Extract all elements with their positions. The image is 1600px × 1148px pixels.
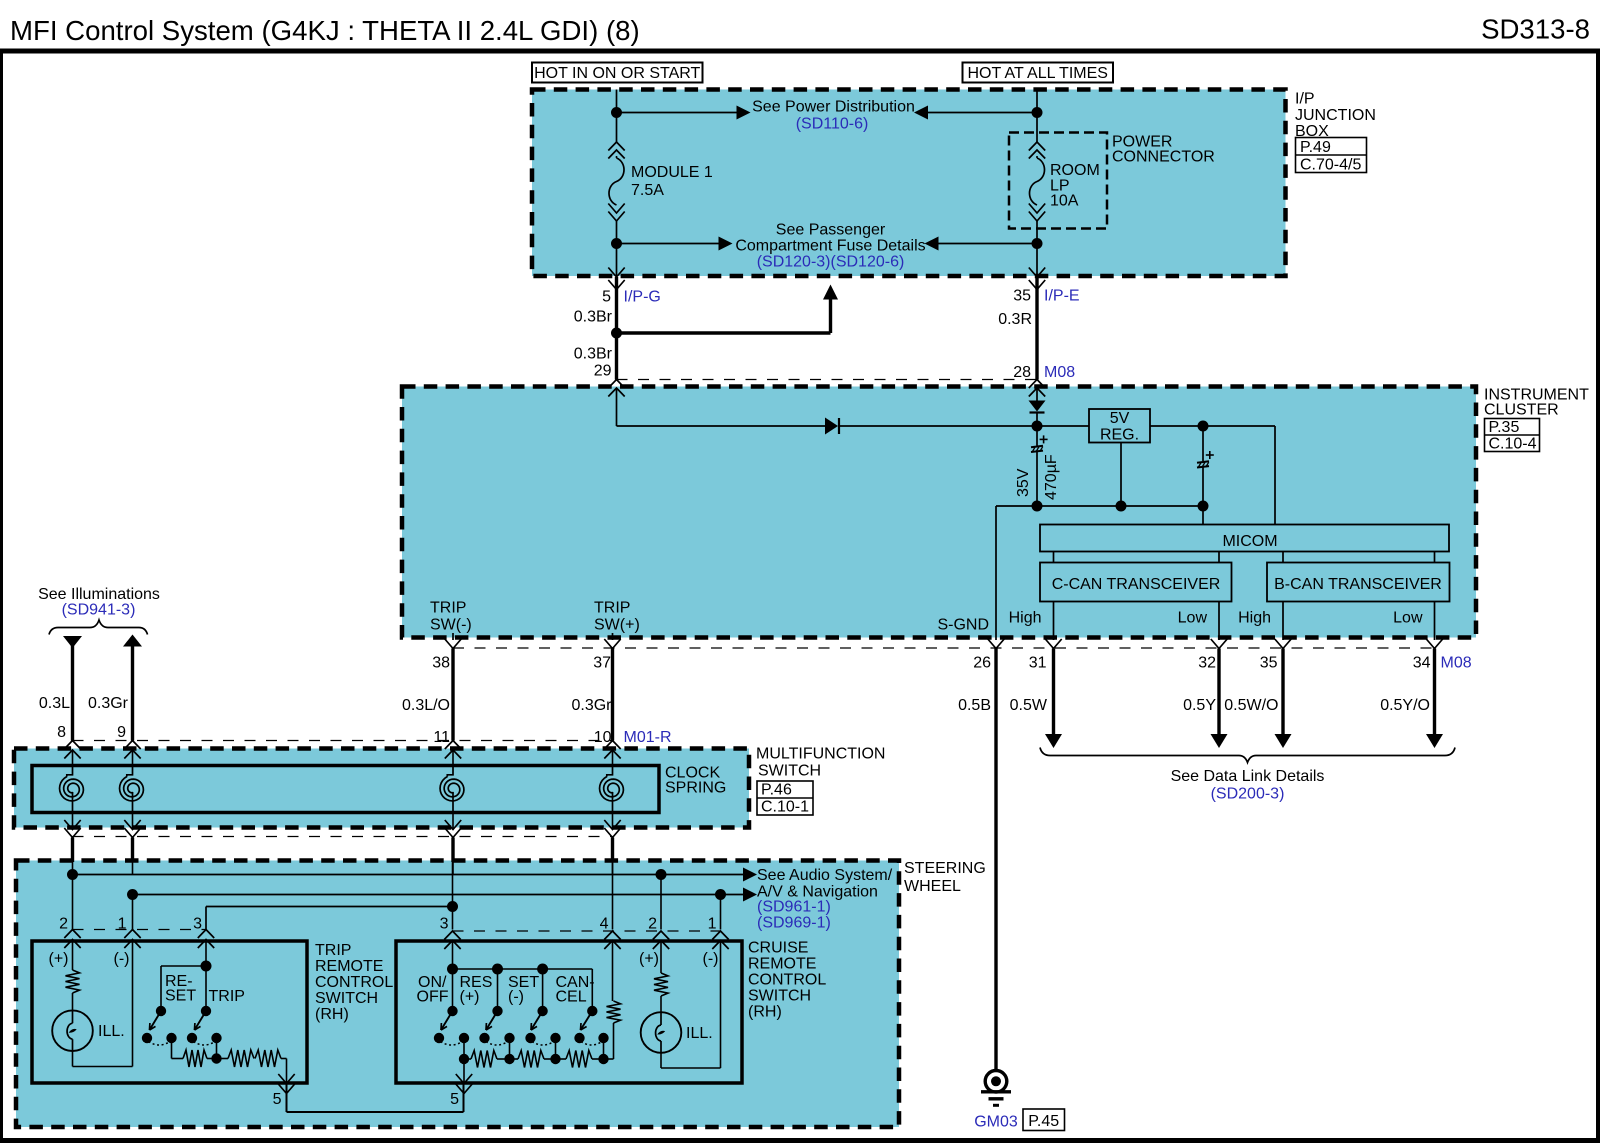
lamp cruise ILL (660, 996, 662, 1012)
node cruise rail set (537, 964, 548, 975)
svg-text:0.3R: 0.3R (998, 311, 1032, 328)
svg-text:(RH): (RH) (748, 1004, 782, 1021)
contact dots trip switches (142, 1033, 152, 1043)
resistor cruise R2 (510, 1058, 519, 1060)
wire c-can high to pin 31 (1053, 602, 1055, 641)
connector pin8 exit multifunction (64, 820, 80, 830)
svg-text:0.3Br: 0.3Br (574, 309, 613, 326)
connector pin8 entry multifunction (64, 741, 80, 750)
svg-text:SD313-8: SD313-8 (1481, 14, 1590, 45)
wire steering drop pin2 (72, 875, 74, 930)
svg-text:REMOTE: REMOTE (748, 956, 816, 973)
node cruise rail res (492, 964, 503, 975)
svg-text:3: 3 (440, 916, 449, 933)
node audio line2 cruise pin1 (715, 889, 726, 900)
wire pin8 through clock spring (72, 750, 74, 766)
ganged link set (532, 1042, 554, 1046)
svg-text:0.3L/O: 0.3L/O (402, 697, 450, 714)
wire 0.5Y pin32 (1217, 649, 1220, 736)
svg-text:28: 28 (1013, 364, 1031, 381)
wire b-can low to pin 34 (1434, 602, 1436, 641)
node audio line1 cruise pin2 (656, 869, 667, 880)
node rail cap2 (1198, 501, 1209, 512)
wire pin9 to steering wheel (131, 838, 134, 863)
wire trip pin3 link (206, 906, 453, 908)
svg-text:CRUISE: CRUISE (748, 940, 808, 957)
svg-text:(SD941-3): (SD941-3) (62, 602, 136, 619)
ref box P.46 C.10-1 (757, 781, 813, 815)
wire 0.3L/O pin38 (451, 649, 454, 741)
fuse MODULE 1 7.5A (608, 142, 624, 151)
ground GM03 (985, 1071, 1007, 1093)
resistor cruise R1 (464, 1058, 471, 1060)
wire reset contact stub (171, 1038, 173, 1059)
node ignition-distribution junction (611, 107, 622, 118)
node audio line1 start (67, 869, 78, 880)
svg-text:C.10-4: C.10-4 (1489, 436, 1537, 453)
wire steering drop cruise pin2 (660, 875, 662, 930)
svg-text:P.49: P.49 (1300, 139, 1331, 156)
svg-text:(SD110-6): (SD110-6) (796, 116, 869, 133)
svg-text:M08: M08 (1044, 364, 1075, 381)
node trip-cruise pin3 junction (447, 901, 458, 912)
connector pin 35 exit (1275, 639, 1291, 649)
svg-text:29: 29 (594, 363, 612, 380)
label HOT IN ON OR START (532, 63, 703, 83)
resistor trip R1 (172, 1058, 184, 1060)
switch RESET (156, 1006, 166, 1016)
svg-text:REG.: REG. (1100, 427, 1139, 444)
wire ignition feed (616, 90, 618, 143)
svg-text:MULTIFUNCTION: MULTIFUNCTION (756, 746, 885, 763)
svg-text:C.10-1: C.10-1 (761, 799, 809, 816)
switch CANCEL (587, 1006, 597, 1016)
svg-text:STEERING: STEERING (904, 860, 986, 877)
wire audio line 1 (73, 874, 744, 876)
connector cruise switch entry x612.5 (604, 931, 620, 940)
node main rail left (1032, 421, 1043, 432)
clock spring coil pin11 (440, 776, 464, 800)
svg-text:OFF: OFF (417, 989, 449, 1006)
svg-text:(SD200-3): (SD200-3) (1211, 786, 1285, 803)
connector line cruise switch (453, 930, 721, 932)
connector pin 34 exit (1426, 639, 1442, 649)
svg-text:35: 35 (1260, 655, 1278, 672)
wire 0.5B s-gnd (994, 649, 997, 1071)
svg-text:0.3Br: 0.3Br (574, 346, 613, 363)
wire branch arrow to fuse details (617, 331, 831, 334)
svg-text:(+): (+) (639, 951, 659, 968)
svg-text:(RH): (RH) (315, 1006, 349, 1023)
switch SET (537, 1006, 547, 1016)
svg-text:JUNCTION: JUNCTION (1295, 107, 1376, 124)
connector cruise switch entry x452.5 (444, 931, 460, 940)
svg-text:0.5Y: 0.5Y (1183, 697, 1216, 714)
wire 0.3R (1035, 277, 1038, 380)
label HOT AT ALL TIMES (963, 63, 1114, 83)
svg-text:HOT AT ALL TIMES: HOT AT ALL TIMES (967, 65, 1108, 82)
connector pin10 exit multifunction (604, 820, 620, 830)
wire 0.3Gr pin37 (611, 649, 614, 741)
svg-text:TRIP: TRIP (594, 600, 630, 617)
svg-text:TRIP: TRIP (430, 600, 466, 617)
svg-text:MFI Control System (G4KJ : THE: MFI Control System (G4KJ : THETA II 2.4L… (10, 15, 640, 46)
wire trip-cruise pin5 link (287, 1111, 464, 1113)
svg-text:C.70-4/5: C.70-4/5 (1300, 157, 1361, 174)
wire 0.3Gr illumination (123, 635, 142, 647)
connector pin 29 entry (608, 380, 624, 389)
svg-text:2: 2 (648, 916, 657, 933)
connector pin 31 exit (1045, 639, 1061, 649)
svg-text:High: High (1238, 610, 1271, 627)
svg-text:High: High (1009, 610, 1042, 627)
wire steering drop cruise pin3 (452, 862, 454, 930)
wire cruise lamp return (660, 1053, 662, 1068)
ic C-CAN TRANSCEIVER (1040, 563, 1232, 602)
wire steering drop cruise pin4 (612, 862, 614, 930)
wire pin11 through clock spring (452, 750, 454, 766)
node 0.3Br branch junction (611, 328, 622, 339)
svg-text:4: 4 (600, 916, 609, 933)
svg-text:(SD969-1): (SD969-1) (757, 915, 831, 932)
svg-text:Compartment Fuse Details: Compartment Fuse Details (735, 238, 925, 255)
svg-text:26: 26 (973, 655, 991, 672)
switch TRIP (201, 1006, 211, 1016)
svg-text:SET: SET (165, 988, 196, 1005)
node rail reg (1116, 501, 1127, 512)
diode D2 (1036, 388, 1038, 401)
svg-text:8: 8 (57, 724, 66, 741)
svg-text:GM03: GM03 (974, 1114, 1018, 1131)
svg-text:1: 1 (118, 916, 127, 933)
svg-text:0.5B: 0.5B (958, 697, 991, 714)
svg-text:P.46: P.46 (761, 782, 792, 799)
connector trip switch entry x206 (198, 930, 214, 939)
svg-text:I/P-G: I/P-G (624, 289, 661, 306)
wire trip contact stub (216, 1038, 218, 1059)
node cap2 top (1198, 421, 1209, 432)
wire pin11 to steering wheel (451, 838, 454, 863)
svg-text:MODULE 1: MODULE 1 (631, 164, 713, 181)
connector pin 28 entry (1029, 380, 1045, 389)
svg-text:See Audio System/: See Audio System/ (757, 867, 893, 884)
wire 0.3L illumination (63, 636, 82, 648)
connector pin11 entry multifunction (445, 741, 461, 750)
wire 5V reg output (1150, 425, 1275, 427)
node battery-distribution junction (1032, 107, 1043, 118)
svg-text:9: 9 (117, 724, 126, 741)
svg-text:SW(+): SW(+) (594, 617, 640, 634)
resistor cruise R4 vertical (607, 1001, 621, 1023)
wire 0.3Br lower (615, 333, 618, 380)
I/P junction box block (532, 90, 1286, 277)
wire cruise pin4 internal (612, 941, 614, 1002)
regulator 5V REG (1089, 409, 1150, 443)
clock spring box (32, 766, 659, 813)
svg-text:31: 31 (1029, 655, 1047, 672)
svg-text:(-): (-) (703, 951, 719, 968)
svg-text:SPRING: SPRING (665, 780, 726, 797)
svg-text:I/P: I/P (1295, 91, 1315, 108)
wire trip sw+ internal (612, 633, 614, 640)
svg-text:P.45: P.45 (1028, 1113, 1059, 1130)
diode D1 (825, 418, 838, 435)
svg-text:(SD961-1): (SD961-1) (757, 899, 831, 916)
trip remote control switch box (32, 941, 307, 1083)
connector cruise switch entry x720.5 (712, 931, 728, 940)
resistor trip illumination (72, 940, 74, 971)
wire battery feed (1036, 90, 1038, 143)
ref box P.35 C.10-4 (1485, 419, 1540, 452)
multifunction switch block (14, 749, 749, 828)
wire trip lamp return (72, 1051, 74, 1067)
node cruise rail A (459, 1054, 469, 1064)
ganged link on/off (441, 1042, 463, 1046)
switch RES (492, 1006, 502, 1016)
switch ON/OFF (447, 1006, 457, 1016)
connector pin10 entry multifunction (604, 741, 620, 750)
resistor trip R2 (217, 1058, 229, 1060)
wire steering drop pin1 (132, 895, 134, 930)
ref box P.45 (1023, 1109, 1065, 1131)
clock spring coil pin10 (600, 776, 624, 800)
wire reset branch (161, 965, 206, 967)
connector line trip switch (73, 929, 207, 931)
wire cruise top rail (453, 968, 593, 970)
svg-text:470µF: 470µF (1043, 454, 1060, 500)
page frame (0, 49, 1600, 54)
wire cruise switch stubs (452, 969, 454, 1011)
connector pin 32 exit (1211, 639, 1227, 649)
svg-text:CEL: CEL (556, 989, 587, 1006)
fuse ROOM LP 10A (1029, 142, 1045, 151)
connector line multifunction bottom (73, 836, 613, 838)
svg-text:0.5W: 0.5W (1010, 697, 1048, 714)
instrument cluster block (402, 387, 1476, 638)
wire cruise contact stubs (463, 1038, 465, 1059)
node passenger-fuse junction left (611, 238, 622, 249)
connector pin 5 I/P-G (608, 268, 624, 278)
node audio line2 start (127, 889, 138, 900)
connector trip switch entry x132.5 (124, 930, 140, 939)
wire 5V reg input (1037, 425, 1089, 427)
wire 0.3Br upper (615, 277, 618, 333)
node trip resistor junction (211, 1053, 221, 1063)
node cruise rail pin3 (447, 964, 458, 975)
svg-text:10A: 10A (1050, 193, 1079, 210)
node cruise rail B (504, 1054, 514, 1064)
capacitor C2 (1202, 426, 1204, 461)
arrow to passenger fuse details left (617, 243, 720, 245)
node cruise rail D (598, 1054, 608, 1064)
connector line M08 top (617, 379, 1038, 381)
svg-text:SWITCH: SWITCH (748, 988, 811, 1005)
svg-text:(-): (-) (508, 989, 524, 1006)
resistor cruise illumination (660, 941, 662, 974)
svg-text:I/P-E: I/P-E (1044, 288, 1080, 305)
svg-text:(+): (+) (49, 951, 69, 968)
svg-text:5: 5 (273, 1091, 282, 1108)
wire cap2 to micom (1202, 506, 1204, 525)
svg-text:0.5Y/O: 0.5Y/O (1380, 697, 1430, 714)
wire trip pin3 internal (205, 940, 207, 967)
power connector box (1009, 133, 1107, 229)
wire c-can low to pin 32 (1218, 602, 1220, 641)
wire micom to c-can stubs (1053, 552, 1055, 563)
ic MICOM (1040, 525, 1449, 552)
wire pin29 to diode line (616, 388, 618, 426)
ganged link cancel (581, 1042, 602, 1046)
wire cruise pin5 exit (463, 1059, 465, 1084)
wire pin8 to steering wheel (71, 838, 74, 863)
resistor trip R3 (255, 1050, 281, 1067)
svg-text:See Data Link Details: See Data Link Details (1171, 768, 1325, 785)
svg-text:See Passenger: See Passenger (776, 222, 886, 239)
connector pin 26 exit (988, 639, 1004, 649)
node trip switch feed (201, 961, 212, 972)
svg-text:7.5A: 7.5A (631, 182, 664, 199)
svg-text:WHEEL: WHEEL (904, 878, 961, 895)
svg-text:35V: 35V (1015, 468, 1032, 497)
svg-text:34: 34 (1413, 655, 1431, 672)
svg-text:See Illuminations: See Illuminations (38, 586, 160, 603)
svg-text:Low: Low (1393, 610, 1423, 627)
wire 0.5W pin31 (1052, 649, 1055, 736)
svg-text:M01-R: M01-R (624, 729, 672, 746)
svg-text:See Power Distribution: See Power Distribution (752, 99, 915, 116)
ref box P.49 C.70-4/5 (1296, 138, 1367, 173)
svg-text:REMOTE: REMOTE (315, 958, 383, 975)
svg-text:CLUSTER: CLUSTER (1484, 402, 1559, 419)
svg-text:(-): (-) (114, 951, 130, 968)
wire 5V reg ground stub (1120, 443, 1122, 507)
svg-text:0.3Gr: 0.3Gr (88, 695, 129, 712)
svg-text:11: 11 (433, 729, 450, 746)
svg-text:SW(-): SW(-) (430, 617, 472, 634)
wire 0.5W/O pin35 (1281, 649, 1284, 736)
connector pin 37 exit (604, 639, 620, 649)
cruise remote control switch box (396, 941, 742, 1083)
ganged link trip (194, 1042, 216, 1046)
wire ground rail (996, 505, 1203, 507)
wire trip pin5 exit (286, 1059, 288, 1084)
ganged link res (486, 1042, 508, 1046)
ic B-CAN TRANSCEIVER (1267, 563, 1450, 602)
svg-text:1: 1 (708, 916, 717, 933)
svg-text:TRIP: TRIP (209, 988, 245, 1005)
wire steering drop cruise pin1 (720, 895, 722, 930)
resistor cruise R3 (556, 1058, 567, 1060)
arrow to passenger fuse details right (938, 243, 1037, 245)
wire pin9 through clock spring (132, 750, 134, 766)
svg-text:ILL.: ILL. (98, 1023, 125, 1040)
node passenger-fuse junction right (1032, 238, 1043, 249)
wire audio line 2 (133, 894, 744, 896)
wire trip sw- internal (452, 633, 454, 640)
brace data link (1040, 748, 1455, 763)
svg-text:M08: M08 (1441, 655, 1472, 672)
svg-text:ROOM: ROOM (1050, 162, 1100, 179)
svg-text:32: 32 (1198, 655, 1216, 672)
capacitor C1 470uF 35V (1036, 426, 1038, 446)
svg-text:0.5W/O: 0.5W/O (1224, 697, 1278, 714)
svg-text:(SD120-3)(SD120-6): (SD120-3)(SD120-6) (757, 254, 905, 271)
svg-text:ILL.: ILL. (686, 1025, 713, 1042)
svg-text:B-CAN TRANSCEIVER: B-CAN TRANSCEIVER (1274, 576, 1442, 593)
arrow to power distribution left (617, 112, 738, 114)
lamp trip ILL (72, 993, 74, 1010)
svg-text:2: 2 (59, 916, 68, 933)
svg-text:0.3L: 0.3L (39, 695, 70, 712)
wire cruise rail to resistor R4 (604, 1058, 614, 1060)
svg-text:TRIP: TRIP (315, 942, 351, 959)
wire micom to b-can stubs (1282, 552, 1284, 563)
svg-text:MICOM: MICOM (1222, 533, 1277, 550)
connector pin9 entry multifunction (124, 741, 140, 750)
svg-text:C-CAN TRANSCEIVER: C-CAN TRANSCEIVER (1052, 576, 1221, 593)
svg-text:37: 37 (593, 655, 611, 672)
brace illuminations (49, 620, 148, 635)
svg-text:5: 5 (602, 289, 611, 306)
connector trip switch entry x72.5 (64, 930, 80, 939)
wire trip branch (205, 966, 207, 1011)
svg-text:0.3Gr: 0.3Gr (571, 697, 612, 714)
svg-text:Low: Low (1178, 610, 1208, 627)
svg-text:CONTROL: CONTROL (315, 974, 393, 991)
svg-text:CONNECTOR: CONNECTOR (1112, 149, 1215, 166)
steering wheel block (16, 861, 899, 1128)
connector line M08 bottom (453, 647, 1435, 649)
connector pin 35 I/P-E (1029, 268, 1045, 278)
wire b-can high to pin 35 (1282, 602, 1284, 641)
svg-text:(+): (+) (460, 989, 480, 1006)
connector pin11 exit multifunction (445, 820, 461, 830)
svg-text:S-GND: S-GND (937, 617, 989, 634)
svg-text:HOT IN ON OR START: HOT IN ON OR START (534, 65, 700, 82)
contact dots cruise switches (434, 1033, 444, 1043)
arrow to power distribution right (928, 112, 1038, 114)
svg-text:CONTROL: CONTROL (748, 972, 826, 989)
wire pin10 to steering wheel (611, 838, 614, 863)
connector pin 38 exit (445, 639, 461, 649)
node cruise rail C (550, 1054, 560, 1064)
clock spring coil pin9 (120, 776, 144, 800)
clock spring coil pin8 (60, 776, 84, 800)
svg-text:SWITCH: SWITCH (315, 990, 378, 1007)
connector cruise switch entry x661 (653, 931, 669, 940)
ganged link reset (149, 1042, 171, 1046)
connector pin9 exit multifunction (124, 820, 140, 830)
svg-text:SWITCH: SWITCH (758, 763, 821, 780)
svg-text:5: 5 (450, 1091, 459, 1108)
svg-text:35: 35 (1013, 288, 1031, 305)
wire cruise pin3 internal (452, 941, 454, 970)
node rail cap1 (1032, 501, 1043, 512)
wire pin10 through clock spring (612, 750, 614, 766)
wire 0.5Y/O pin34 (1433, 649, 1436, 736)
svg-text:5V: 5V (1110, 410, 1130, 427)
svg-text:P.35: P.35 (1489, 419, 1520, 436)
svg-text:38: 38 (432, 655, 450, 672)
svg-text:3: 3 (193, 916, 202, 933)
connector line M01-R (73, 740, 613, 742)
